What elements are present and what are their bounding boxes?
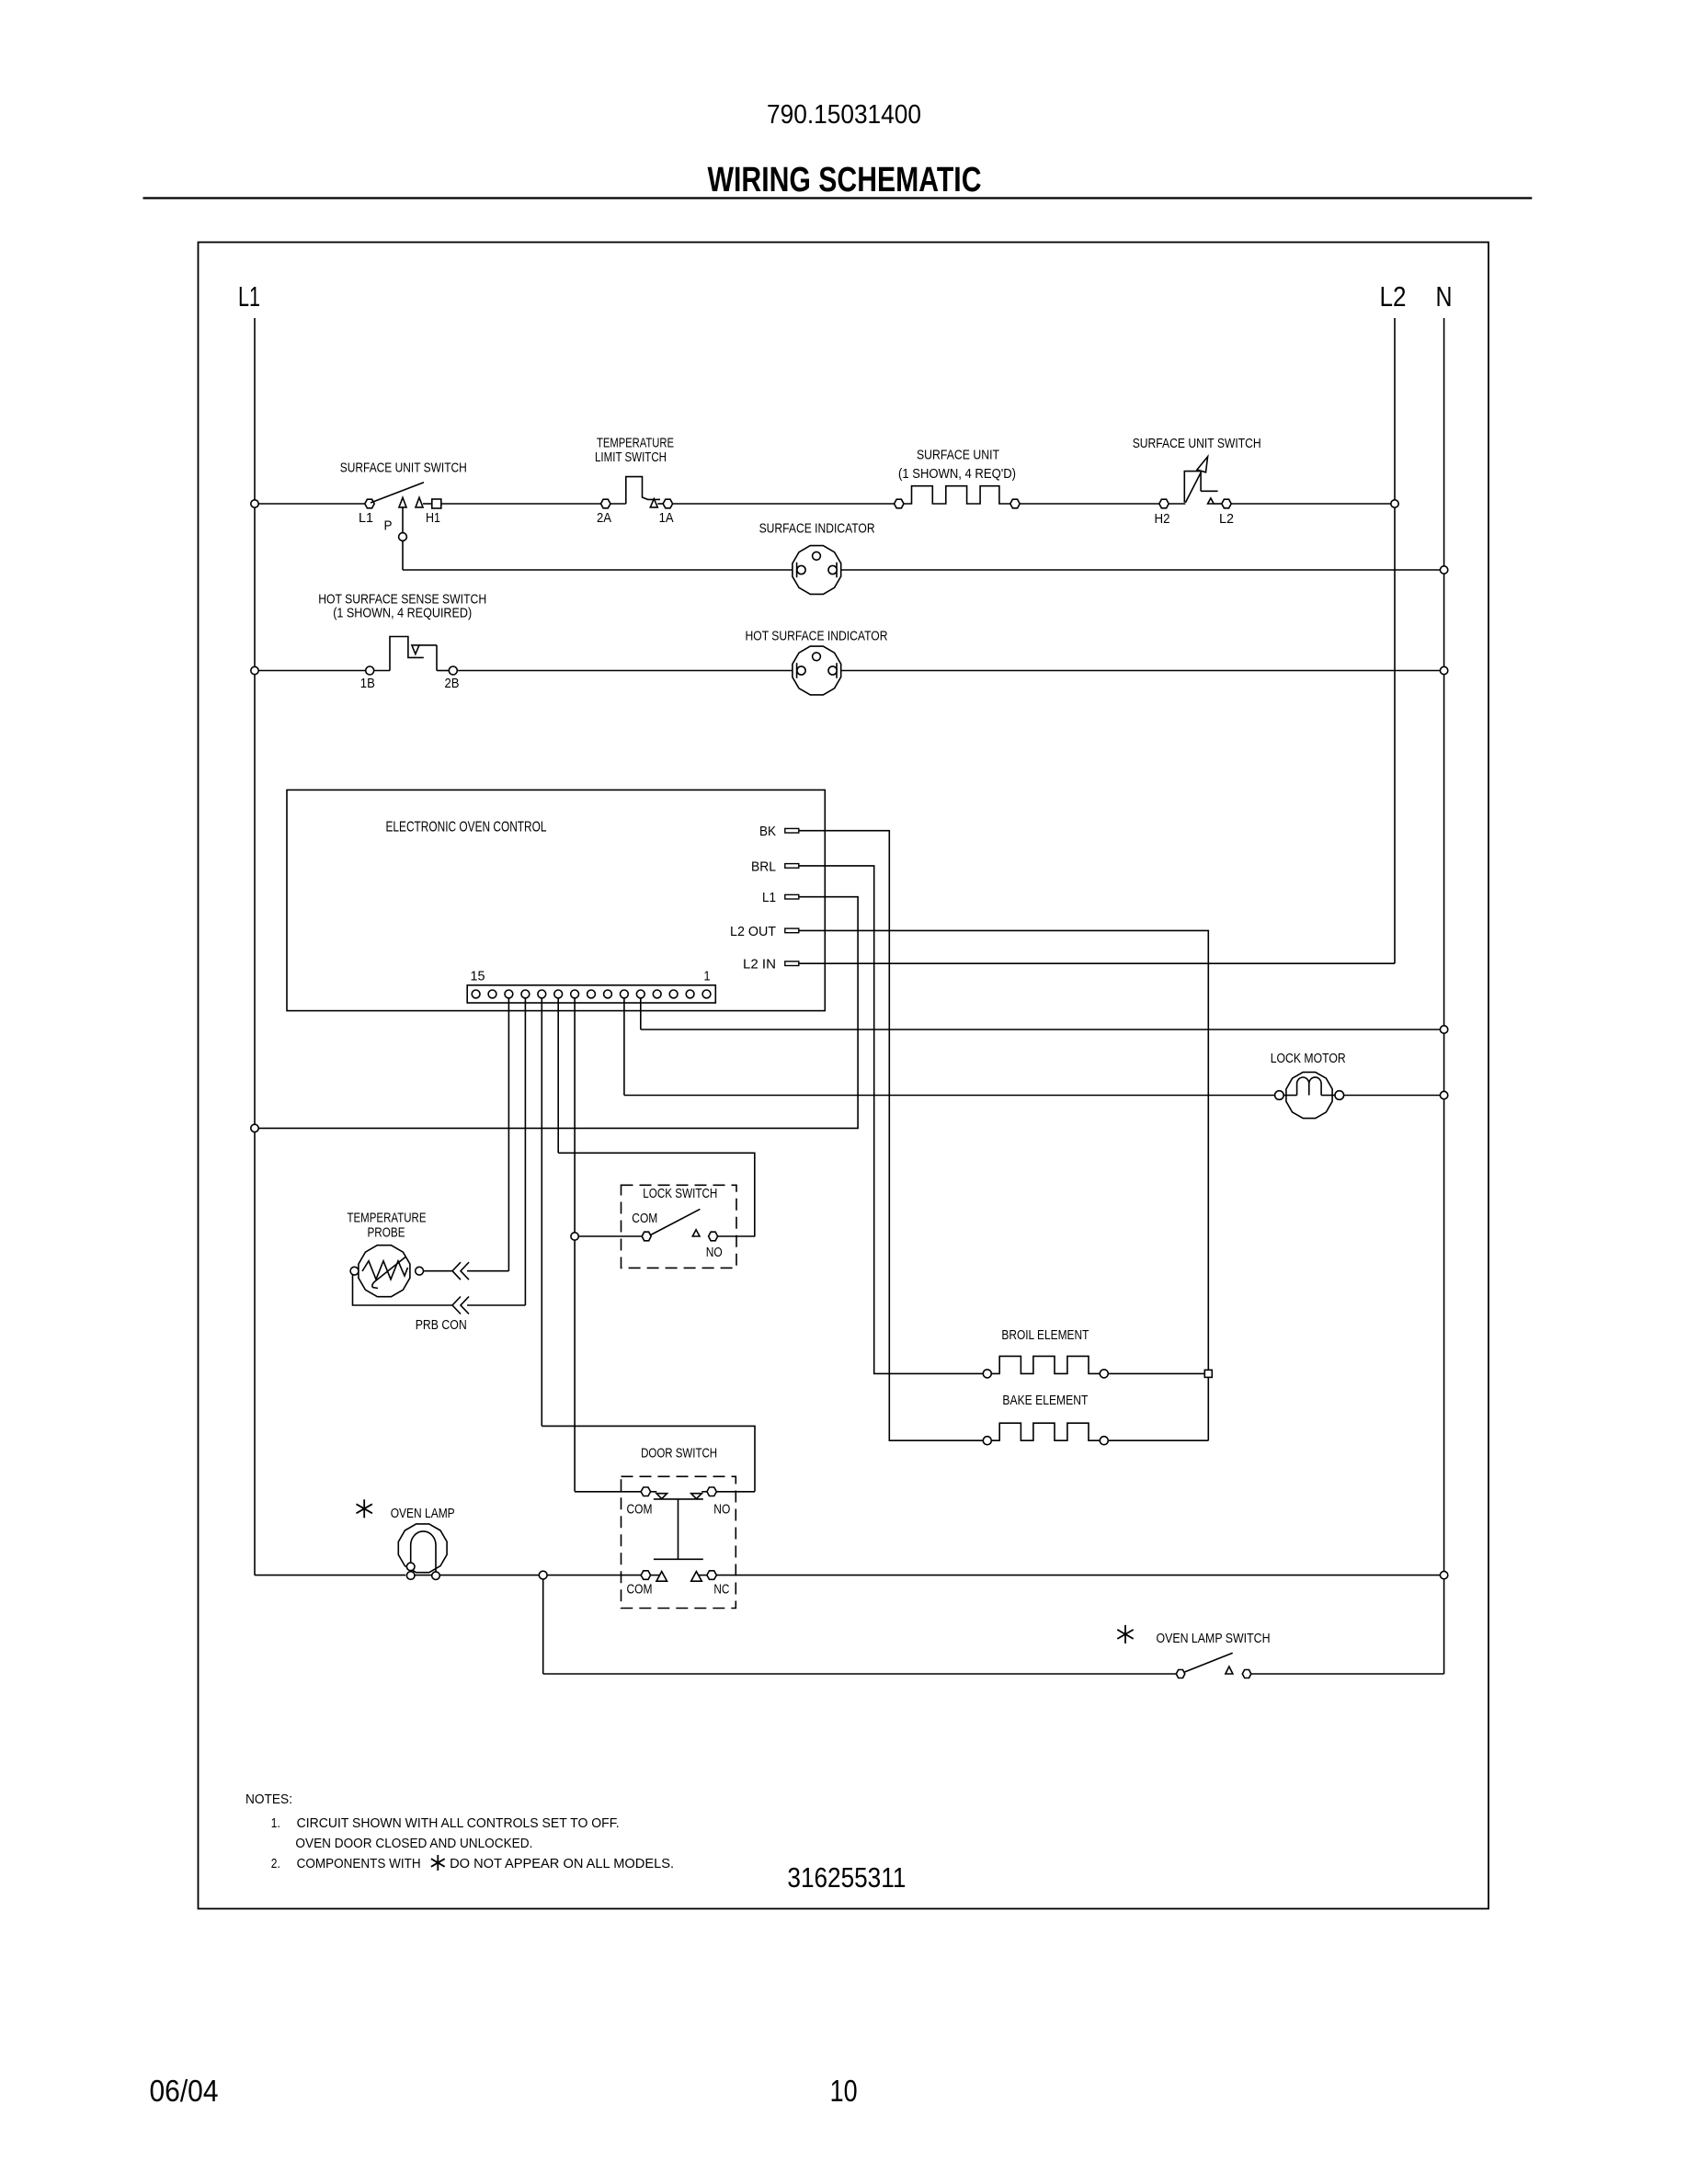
- svg-text:PRB CON: PRB CON: [416, 1317, 467, 1333]
- svg-text:L1: L1: [762, 890, 776, 905]
- svg-text:H2: H2: [1155, 511, 1170, 527]
- svg-text:N: N: [1436, 280, 1453, 313]
- svg-text:SURFACE UNIT SWITCH: SURFACE UNIT SWITCH: [340, 461, 467, 476]
- svg-text:COM: COM: [627, 1501, 653, 1517]
- svg-text:06/04: 06/04: [150, 2074, 219, 2108]
- svg-text:SURFACE INDICATOR: SURFACE INDICATOR: [759, 521, 875, 537]
- svg-text:(1 SHOWN, 4 REQ'D): (1 SHOWN, 4 REQ'D): [898, 466, 1016, 482]
- svg-text:1B: 1B: [360, 676, 375, 691]
- svg-text:LOCK SWITCH: LOCK SWITCH: [643, 1186, 717, 1201]
- svg-text:LOCK MOTOR: LOCK MOTOR: [1271, 1051, 1346, 1066]
- svg-text:1: 1: [704, 969, 711, 984]
- svg-text:L2: L2: [1219, 511, 1234, 527]
- svg-text:(1 SHOWN, 4 REQUIRED): (1 SHOWN, 4 REQUIRED): [333, 606, 472, 621]
- svg-text:WIRING SCHEMATIC: WIRING SCHEMATIC: [708, 161, 982, 199]
- svg-text:PROBE: PROBE: [368, 1225, 405, 1241]
- svg-text:L1: L1: [238, 280, 260, 313]
- svg-text:OVEN LAMP SWITCH: OVEN LAMP SWITCH: [1157, 1631, 1271, 1646]
- svg-text:BAKE ELEMENT: BAKE ELEMENT: [1002, 1393, 1088, 1408]
- svg-text:OVEN LAMP: OVEN LAMP: [391, 1506, 455, 1521]
- svg-text:L2: L2: [1380, 280, 1407, 313]
- svg-text:HOT SURFACE INDICATOR: HOT SURFACE INDICATOR: [746, 629, 888, 644]
- svg-text:2A: 2A: [597, 510, 611, 526]
- svg-text:CIRCUIT SHOWN WITH ALL CONTROL: CIRCUIT SHOWN WITH ALL CONTROLS SET TO O…: [297, 1815, 620, 1831]
- svg-text:1.: 1.: [271, 1815, 280, 1831]
- svg-text:NO: NO: [706, 1245, 723, 1260]
- svg-text:1A: 1A: [659, 510, 674, 526]
- svg-text:BK: BK: [759, 824, 776, 839]
- svg-text:L2 IN: L2 IN: [743, 957, 776, 973]
- svg-text:L2 OUT: L2 OUT: [730, 924, 776, 939]
- svg-text:BRL: BRL: [751, 859, 776, 874]
- svg-text:H1: H1: [426, 510, 440, 526]
- svg-text:LIMIT SWITCH: LIMIT SWITCH: [595, 449, 667, 465]
- svg-text:2B: 2B: [445, 676, 460, 691]
- svg-text:COM: COM: [632, 1211, 657, 1226]
- svg-text:316255311: 316255311: [787, 1861, 906, 1894]
- svg-text:DO NOT APPEAR ON ALL MODELS.: DO NOT APPEAR ON ALL MODELS.: [450, 1856, 674, 1871]
- svg-text:COMPONENTS WITH: COMPONENTS WITH: [297, 1856, 421, 1871]
- svg-text:TEMPERATURE: TEMPERATURE: [597, 436, 674, 451]
- svg-text:15: 15: [471, 969, 485, 984]
- svg-text:10: 10: [830, 2074, 858, 2108]
- svg-text:NO: NO: [713, 1501, 730, 1517]
- svg-text:L1: L1: [359, 510, 373, 526]
- svg-text:DOOR SWITCH: DOOR SWITCH: [641, 1446, 717, 1462]
- svg-text:NC: NC: [713, 1581, 729, 1597]
- svg-text:BROIL ELEMENT: BROIL ELEMENT: [1001, 1327, 1089, 1343]
- svg-text:ELECTRONIC OVEN CONTROL: ELECTRONIC OVEN CONTROL: [386, 820, 547, 836]
- svg-text:SURFACE UNIT: SURFACE UNIT: [917, 448, 999, 463]
- svg-text:NOTES:: NOTES:: [245, 1792, 292, 1807]
- svg-text:TEMPERATURE: TEMPERATURE: [348, 1211, 427, 1226]
- svg-text:P: P: [384, 518, 393, 534]
- svg-text:SURFACE UNIT SWITCH: SURFACE UNIT SWITCH: [1133, 436, 1261, 451]
- svg-text:790.15031400: 790.15031400: [767, 100, 921, 130]
- svg-text:COM: COM: [627, 1581, 653, 1597]
- svg-text:OVEN DOOR CLOSED AND UNLOCKED.: OVEN DOOR CLOSED AND UNLOCKED.: [295, 1836, 532, 1851]
- svg-text:2.: 2.: [271, 1856, 280, 1871]
